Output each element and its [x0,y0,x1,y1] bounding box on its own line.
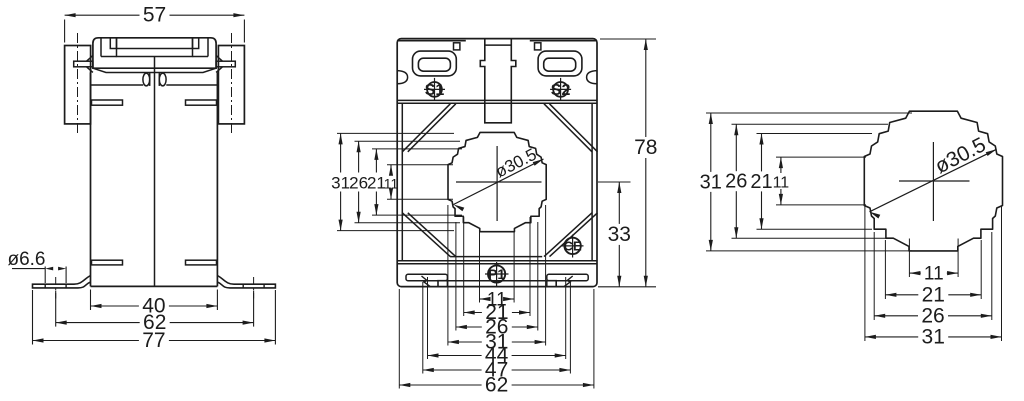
section view: dimension 26 bottom [874,315,918,317]
front view: recessed bottom between feet [447,280,546,282]
section view: ext lines left [706,112,912,114]
left view: dimension 77 [32,290,34,345]
front view: terminal screw S1 [434,78,436,101]
front view: dimension 47 bottom [423,369,482,371]
front view: dimension 11 bottom [480,298,484,300]
svg-text:26: 26 [921,304,944,327]
section view: dimension 26 vertical [735,124,737,171]
left view: dimension 40 [90,290,92,311]
front view: octagon bottom-right corner ribs [544,213,592,257]
section view: dimension 31 vertical [710,113,712,172]
section view: dimension 31 bottom [865,336,918,338]
front view: left foot outline [438,281,447,287]
left view: cover right latch slot [193,38,199,49]
svg-text:ø30.5: ø30.5 [931,133,989,178]
svg-text:26: 26 [725,171,747,193]
front view: right seal notch square [535,43,541,50]
front view: dimension 31 vertical [340,133,342,172]
left view: body bottom edge [91,285,218,287]
front view: octagon bottom side [450,256,542,258]
svg-text:ø30.5: ø30.5 [492,145,539,182]
front view: right edge ear [587,71,597,84]
front view: inner wall right [591,103,593,261]
front view: octagon top-left corner ribs [402,104,450,152]
front view: dimension 78 [600,38,656,40]
front view: dimension 26 vertical [358,141,360,172]
front view: ext lines bottom stack [479,232,481,303]
left view: right upper rail tab [186,100,217,105]
front view: left terminal window inner [418,58,450,71]
front view: octagon top-right corner ribs [544,104,592,152]
svg-text:33: 33 [608,223,631,246]
section view: dimension 11 bottom [909,272,920,274]
front view: body outline [397,39,597,287]
svg-text:77: 77 [142,329,165,352]
svg-text:S2: S2 [551,82,571,99]
left view: left lower rail tab [92,260,123,265]
svg-text:26: 26 [349,174,368,193]
left view: left cover tab [74,61,93,67]
left view: right clamp plate [218,46,244,124]
left view: dimension 57 overall width across side plates [64,20,66,43]
left view: left foot slot hole edges [44,284,46,288]
svg-text:78: 78 [634,136,657,159]
left view: shoulder line [93,68,216,72]
section view: ext lines bottom [908,239,910,278]
left view: right bracket foot [217,276,275,288]
left view: right hinge knuckle [159,73,166,86]
left view: left hole centerline [55,277,57,299]
svg-text:21: 21 [750,171,772,193]
svg-text:21: 21 [922,283,945,306]
left view: left bracket foot [33,276,91,288]
front view: right foot outline [547,281,556,287]
front view: terminal block lower edge (double line) [397,99,597,101]
left view: right cover tab [216,61,235,67]
section view: dimension 11 vertical [780,157,782,173]
left view: right foot slot hole edges [242,284,244,288]
front view: scalloped hole profile dia 30.5 [448,132,546,231]
svg-text:P1: P1 [488,266,505,282]
front view: bottom band (double line) [397,260,597,262]
left view: left upper rail tab [92,100,123,105]
front view: octagon bottom-left corner ribs [402,213,450,257]
left view: body upper edge [91,84,144,86]
svg-text:S1: S1 [425,82,445,99]
left view: left clamp plate [65,46,91,124]
front view: hole ext lines left [337,132,454,134]
left view: left hinge knuckle [143,73,150,86]
front view: dimension 31 bottom [448,341,482,343]
svg-text:62: 62 [485,374,508,397]
front view: right terminal window outer [538,51,582,76]
svg-text:11: 11 [924,264,944,285]
front view: dimension 62 bottom [399,384,481,386]
svg-text:57: 57 [143,4,166,27]
front view: top rim thick segments [398,40,466,42]
front view: dimension 21 bottom [464,312,482,314]
svg-text:CE: CE [564,239,582,254]
front view: inner wall left [401,103,403,261]
svg-text:31: 31 [922,325,945,348]
front view: central latch tab [480,39,516,123]
left view: cover left latch slot [110,38,116,49]
section view: dimension 21 bottom [885,294,918,296]
front view: left edge ear [397,71,407,84]
front view: dimension 44 bottom [428,355,482,357]
front view: dimension 21 vertical [375,149,377,173]
svg-text:11: 11 [384,176,399,192]
front view: dia 30.5 dimension arrow [454,159,544,205]
front view: dimension 11 vertical [390,165,392,175]
svg-text:11: 11 [773,175,790,192]
left view: body left side [90,73,92,287]
left view: right hole centerline [253,277,255,299]
left view: right lower rail tab [186,260,217,265]
section view: dimension 21 vertical [761,134,763,172]
left view: cover recessed nameplate [117,38,193,57]
section view: scalloped hole profile dia 30.5 [864,111,1002,251]
left view: body right side [216,73,218,287]
section view: hole crosshair [932,142,934,221]
front view: left seal notch square [454,43,460,50]
svg-text:31: 31 [700,171,722,193]
front view: left terminal window outer [413,51,457,76]
front view: lower-right case screw [572,235,574,258]
front view: right terminal window inner [544,58,576,71]
front view: bottom fixing screw [496,262,498,287]
left view: center parting line [154,57,156,287]
svg-text:31: 31 [331,174,350,193]
left view: top cover outline [93,38,216,68]
left view: dimension 62 [55,291,57,327]
front view: hole crosshair [496,146,498,221]
front view: dimension 26 bottom [456,326,482,328]
svg-text:ø6.6: ø6.6 [7,249,45,270]
left view: right plate centerline [231,33,233,136]
front view: terminal screw S2 [560,78,562,101]
front view: dimension 33 [598,286,656,288]
section view: dia 30.5 dimension arrow [870,149,997,212]
left view: left plate centerline [77,33,79,136]
